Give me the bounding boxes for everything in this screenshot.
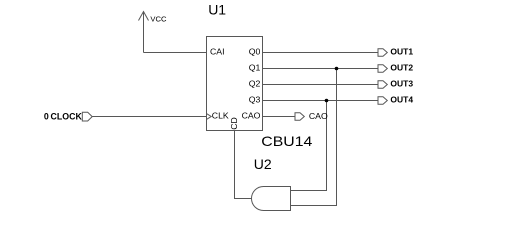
svg-text:U2: U2 [254,156,272,172]
clock edge marker on CLK pin [207,114,212,120]
output port symbol OUT3 [378,81,387,89]
and-gate U2 [252,187,291,211]
wire Q2 to OUT3 [263,84,379,86]
wire Q1 to OUT2 [263,68,379,70]
svg-text:CBU14: CBU14 [261,133,312,149]
svg-text:Q2: Q2 [249,78,261,88]
wire Q3 to OUT4 [263,100,379,102]
svg-text:OUT3: OUT3 [390,79,413,89]
svg-text:Q3: Q3 [249,94,261,104]
wire VCC to CAI pin [144,52,207,54]
svg-text:OUT4: OUT4 [390,95,413,105]
op IC body U1 [207,37,263,131]
output port symbol OUT2 [378,65,387,73]
wire node Q1 down to U2 input B [291,69,337,206]
svg-text:OUT2: OUT2 [390,63,413,73]
input port symbol CLOCK [82,112,92,121]
output port symbol OUT1 [378,49,387,57]
svg-text:Q0: Q0 [249,46,261,56]
svg-text:CAO: CAO [309,111,328,121]
power symbol VCC [139,12,149,53]
svg-text:CLK: CLK [212,111,229,121]
junction dot node B (Q3 net) [325,99,329,103]
wire CLOCK input to CLK pin [93,116,207,118]
wire CAO pin to CAO port [263,116,296,118]
wire U2 output to CD pin [235,131,252,199]
wire node Q3 down to U2 input A [291,101,327,191]
output port symbol CAO [295,113,304,121]
svg-text:CD: CD [229,117,239,130]
svg-text:CAI: CAI [210,46,224,56]
svg-text:CAO: CAO [242,111,261,121]
svg-text:VCC: VCC [150,14,167,23]
svg-text:U1: U1 [208,2,226,18]
wire Q0 to OUT1 [263,52,379,54]
junction dot node A (Q1 net) [335,67,339,71]
svg-text:OUT1: OUT1 [390,47,413,57]
output port symbol OUT4 [378,97,387,105]
svg-text:Q1: Q1 [249,62,261,72]
svg-text:0 CLOCK: 0 CLOCK [44,112,83,122]
